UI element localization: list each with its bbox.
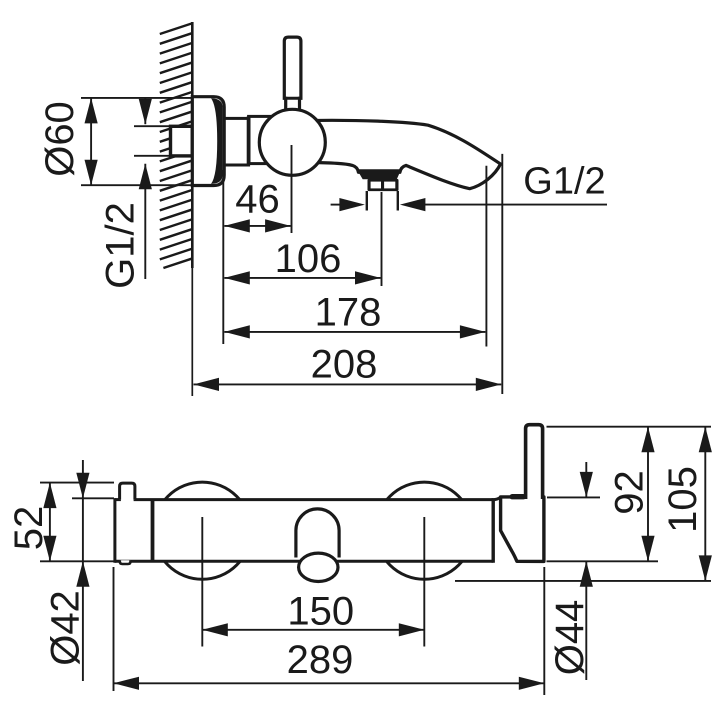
wall hatching — [160, 24, 192, 269]
svg-text:G1/2: G1/2 — [523, 161, 605, 203]
dim Ø44 extension lines — [547, 496, 600, 498]
svg-text:G1/2: G1/2 — [99, 202, 143, 289]
flange rim shading — [211, 98, 223, 184]
left cap tab — [120, 483, 135, 500]
extension line spout tip — [501, 154, 503, 394]
diverter nut — [368, 179, 399, 191]
spout — [303, 120, 501, 188]
svg-text:208: 208 — [311, 343, 378, 387]
mixer bar left edge — [113, 498, 116, 563]
svg-text:46: 46 — [235, 178, 280, 222]
svg-text:Ø60: Ø60 — [38, 101, 82, 177]
diverter collar — [357, 169, 401, 179]
mixer bar body — [115, 500, 493, 562]
handle lever rod — [526, 425, 543, 499]
dim Ø42 arrows — [82, 460, 84, 681]
wall flange — [192, 97, 224, 186]
dim 289 line — [114, 682, 545, 684]
svg-text:150: 150 — [287, 590, 354, 634]
G1/2 inlet stub — [171, 126, 193, 156]
dim 105 extension line — [455, 580, 711, 582]
valve body section — [249, 116, 274, 163]
left cap bottom tab — [120, 560, 131, 564]
mixer bar top edge — [115, 498, 121, 501]
diverter nut facets — [371, 182, 381, 189]
dim Ø60 line — [90, 98, 92, 185]
handle body — [501, 497, 544, 562]
spout outlet — [299, 553, 338, 581]
svg-text:105: 105 — [661, 466, 705, 533]
extension line outlet centre — [381, 192, 383, 286]
svg-text:Ø42: Ø42 — [44, 590, 88, 666]
dim Ø44 arrows — [585, 462, 587, 497]
dim 52 line — [49, 483, 51, 562]
svg-text:92: 92 — [608, 470, 652, 515]
mixer bar right edge — [492, 498, 495, 563]
dim G1/2 stub arrows — [144, 98, 146, 124]
svg-text:289: 289 — [287, 638, 354, 682]
dim G1/2 stub extension lines — [134, 125, 170, 127]
dim Ø60 extension lines — [81, 97, 192, 99]
svg-text:178: 178 — [315, 291, 382, 335]
mixer bar bottom edge — [115, 560, 493, 563]
joint line — [247, 116, 251, 163]
left cap joint line — [151, 500, 155, 561]
dim 52 extension lines — [40, 482, 114, 484]
extension line flange face — [222, 170, 224, 344]
dim 289 extension lines — [113, 567, 115, 691]
G1/2 nipple lines — [366, 191, 368, 211]
svg-text:106: 106 — [275, 237, 342, 281]
dim 106 line — [224, 277, 380, 279]
dim 92 line — [647, 427, 649, 562]
dim 46 line — [224, 225, 290, 227]
dim 178 line — [224, 331, 485, 333]
dim Ø42 extension line — [72, 497, 114, 499]
leader G1/2 outlet — [331, 204, 346, 206]
bar handle connector — [493, 497, 500, 500]
handle lever — [284, 37, 301, 112]
dim 150 extension lines — [201, 517, 203, 647]
left flange circle — [154, 482, 251, 579]
dim 92 extension line — [547, 426, 712, 428]
wall line — [191, 22, 194, 268]
dim 208 line — [194, 383, 502, 385]
svg-text:52: 52 — [7, 506, 51, 551]
cartridge circle — [259, 109, 325, 175]
extension line spout outlet — [485, 166, 487, 347]
spout plan view — [296, 509, 339, 558]
svg-text:Ø44: Ø44 — [548, 600, 592, 676]
lever pivot nub — [510, 494, 527, 499]
dim 105 line — [704, 427, 706, 581]
dim 150 line — [202, 629, 424, 631]
right flange circle — [376, 482, 473, 579]
extension line valve centre — [291, 145, 293, 233]
connection pipe — [224, 118, 249, 165]
